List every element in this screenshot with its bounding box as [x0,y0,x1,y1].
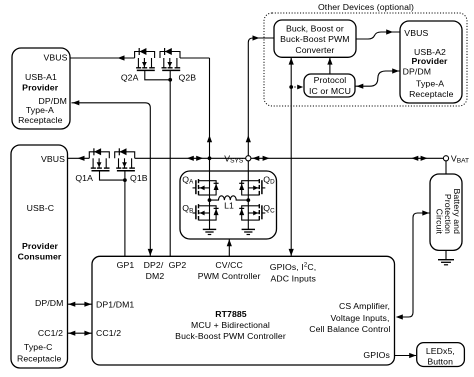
svg-text:Converter: Converter [295,45,334,55]
node SW2 [246,198,250,202]
protocol IC block [304,74,355,97]
wire CV/CC to H-bridge [228,240,230,257]
transistor QD [239,179,265,195]
svg-text:Circuit: Circuit [435,209,445,235]
wire VSYS to converter [248,38,274,156]
wire phase node to QB drain [209,200,211,206]
wire QD source to phase node [247,195,249,200]
wire Q1 gates to GP1 pin [124,180,126,256]
wire protocol IC to converter [329,58,331,74]
wire battery to CS amplifier inputs [398,213,430,317]
svg-text:Type-C: Type-C [24,342,53,352]
svg-text:Buck-Boost PWM Controller: Buck-Boost PWM Controller [175,331,286,341]
svg-text:VBUS: VBUS [41,154,65,164]
svg-text:DP2/: DP2/ [144,260,164,270]
ground QC [247,220,249,229]
svg-text:DP/DM: DP/DM [35,298,64,308]
svg-text:DM2: DM2 [146,271,165,281]
svg-text:Buck-Boost PWM: Buck-Boost PWM [280,34,349,44]
wire protocol IC to DP/DM-A2 [356,71,401,86]
svg-text:Q2A: Q2A [121,72,139,82]
svg-text:PWM Controller: PWM Controller [198,271,261,281]
wire VSYS rail left segment [68,157,90,159]
svg-text:Q1A: Q1A [75,173,93,183]
svg-text:CC1/2: CC1/2 [38,328,63,338]
svg-text:GP2: GP2 [169,260,187,270]
inductor L1 [210,196,249,200]
wire Q2 gates to GP2 pin [169,80,171,256]
svg-text:Provider: Provider [22,82,59,92]
svg-text:Q1B: Q1B [130,173,148,183]
wire GPIOs I2C to converter [290,58,292,256]
svg-text:VBUS: VBUS [43,52,67,62]
transistor QC [239,204,265,220]
svg-text:Receptacle: Receptacle [17,354,62,364]
buck/boost converter block [274,20,356,57]
LED and button block [417,343,465,367]
wire VSYS rail main [135,157,444,159]
svg-text:LEDx5,: LEDx5, [426,346,455,356]
node VSYS [246,156,251,161]
RT7885 controller block [92,256,395,365]
svg-text:Protocol: Protocol [314,75,347,85]
svg-text:Voltage Inputs,: Voltage Inputs, [331,313,390,323]
svg-text:Cell Balance Control: Cell Balance Control [309,324,390,334]
svg-text:USB-C: USB-C [27,203,55,213]
svg-text:USB-A1: USB-A1 [25,72,57,82]
svg-text:Other Devices (optional): Other Devices (optional) [318,2,414,12]
Other Devices (optional) dashed group [264,13,467,106]
svg-text:CS Amplifier,: CS Amplifier, [339,301,390,311]
svg-text:Receptacle: Receptacle [409,89,454,99]
wire QA source to phase node [209,195,211,200]
USB-A2 provider receptacle block [400,21,462,103]
svg-text:Button: Button [427,357,453,367]
svg-text:GPIOs, I2C,: GPIOs, I2C, [270,262,316,272]
svg-text:DP1/DM1: DP1/DM1 [96,299,134,309]
svg-text:ADC Inputs: ADC Inputs [271,273,317,283]
svg-text:RT7885: RT7885 [215,309,247,319]
svg-text:Buck, Boost or: Buck, Boost or [286,23,344,33]
svg-text:Type-A: Type-A [26,105,54,115]
transistor QB [193,204,219,220]
transistor pair Q1A Q1B [89,148,135,182]
ground battery [445,250,447,259]
svg-text:GPIOs: GPIOs [363,350,390,360]
H-bridge power stage block [180,171,277,239]
svg-text:IC or MCU: IC or MCU [309,86,351,96]
svg-text:MCU + Bidirectional: MCU + Bidirectional [191,320,270,330]
node VBAT [443,156,448,161]
wire converter to VBUS-A2 [356,32,400,39]
svg-text:L1: L1 [224,201,234,211]
svg-text:CV/CC: CV/CC [215,260,243,270]
wire GPIOs to LED block [395,355,417,357]
transistor pair Q2A Q2B [135,48,181,82]
wire VSYS node to QD drain [247,161,249,181]
svg-text:Provider: Provider [22,241,59,251]
node SW1 [208,198,212,202]
svg-text:Receptacle: Receptacle [18,115,63,125]
wire phase node to QC drain [247,200,249,206]
svg-text:GP1: GP1 [117,260,135,270]
wire VBUS-A1 to Q2 pair [70,57,135,59]
svg-text:CC1/2: CC1/2 [96,328,121,338]
wire DP/DM-A1 to DP2/DM2 pin [72,103,151,256]
wire CC1/2 USB-C to CC1/2 pin [68,332,93,334]
svg-text:VBUS: VBUS [404,28,428,38]
svg-text:Consumer: Consumer [18,251,62,261]
transistor QA [193,179,219,195]
USB-C provider/consumer receptacle block [11,145,68,368]
svg-text:Type-A: Type-A [416,79,444,89]
ground QB [209,220,211,229]
svg-text:DP/DM: DP/DM [403,67,432,77]
wire Q2B to VSYS vertical [180,57,210,59]
wire DP/DM USB-C to DP1/DM1 [68,303,93,305]
svg-text:Q2B: Q2B [179,72,197,82]
svg-text:Provider: Provider [411,56,448,66]
wire dotted branch to protocol IC [291,86,302,88]
USB-A1 provider receptacle block [12,48,70,129]
battery and protection circuit block [430,174,462,250]
